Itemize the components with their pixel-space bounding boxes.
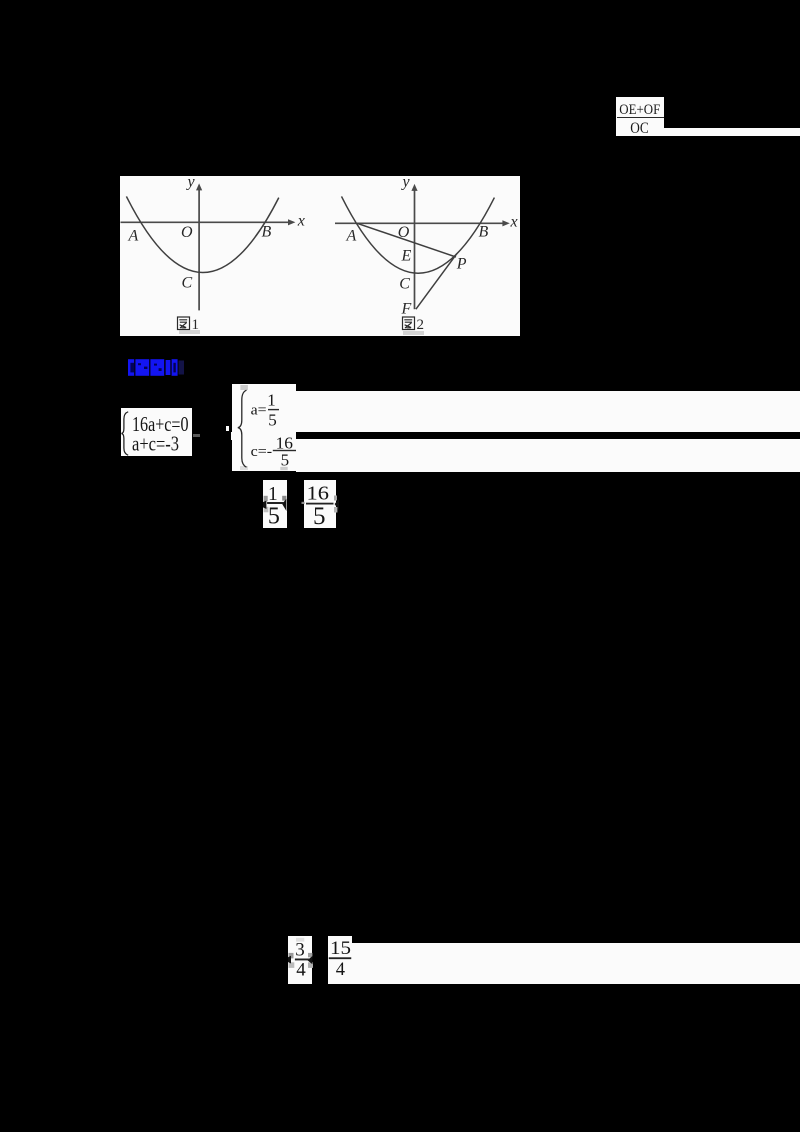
fraction image 3/4 <box>288 936 312 985</box>
svg-text:15: 15 <box>330 939 351 959</box>
svg-text:5: 5 <box>281 451 290 470</box>
svg-text:1: 1 <box>268 484 278 505</box>
svg-text:5: 5 <box>313 503 326 529</box>
svg-text:a=: a= <box>251 403 267 419</box>
svg-text:C: C <box>399 276 410 293</box>
svg-text:B: B <box>479 223 489 240</box>
svg-text:O: O <box>398 224 410 241</box>
svg-text:A: A <box>128 228 139 245</box>
svg-text:4: 4 <box>296 959 306 980</box>
fig2 line F-P extended <box>416 254 457 310</box>
fraction image 1/5 <box>263 480 286 528</box>
caption fig1 : hand-drawn CJK 图1 <box>178 317 190 330</box>
arrowheads <box>196 183 202 190</box>
fig2 y-axis <box>414 187 416 309</box>
svg-text:3: 3 <box>295 939 305 960</box>
fig2 line A-P <box>357 223 456 257</box>
equation image { a=1/5 ; c=-16/5 with wide white bands <box>232 384 296 471</box>
equation image {16a+c=0 ; a+c=-3 <box>121 408 193 456</box>
svg-text:C: C <box>182 275 193 292</box>
svg-text:16: 16 <box>307 483 330 504</box>
fraction image 16/5 <box>304 480 336 528</box>
svg-text:1: 1 <box>267 391 276 410</box>
svg-text:E: E <box>401 248 412 265</box>
fraction image (OE+OF)/OC <box>616 97 664 136</box>
fig2 parabola <box>342 196 495 273</box>
svg-text:4: 4 <box>336 959 345 979</box>
fraction image 15/4 with wide white band <box>328 936 352 984</box>
svg-text:y: y <box>186 176 196 190</box>
caption fig2 <box>403 317 415 330</box>
svg-text:y: y <box>401 176 411 190</box>
gray dash after box <box>193 434 200 437</box>
fig1 y-axis <box>198 187 200 311</box>
svg-text:F: F <box>401 301 412 318</box>
blue label 【解答】 drawn as shapes (CJK not available) <box>127 358 189 378</box>
fig1 parabola <box>126 196 278 272</box>
svg-text:P: P <box>456 256 467 273</box>
svg-text:5: 5 <box>268 411 277 430</box>
svg-text:c=-: c=- <box>251 444 273 460</box>
svg-text:x: x <box>510 214 518 231</box>
svg-text:B: B <box>262 223 272 240</box>
svg-text:5: 5 <box>268 503 280 529</box>
svg-text:O: O <box>181 224 193 241</box>
svg-text:x: x <box>297 213 305 230</box>
svg-text:2: 2 <box>417 317 425 333</box>
fig1 x-axis <box>121 221 293 223</box>
svg-text:A: A <box>346 228 357 245</box>
graphs image box <box>120 176 520 336</box>
tiny sliver fragment left of big brace <box>226 426 229 431</box>
svg-text:a+c=-3: a+c=-3 <box>132 431 179 455</box>
fig2 x-axis <box>335 222 506 224</box>
